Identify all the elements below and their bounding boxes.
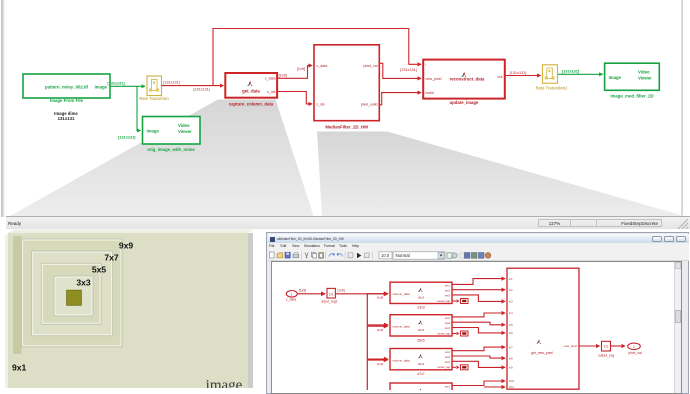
svg-text:[1x9]: [1x9] — [297, 67, 305, 71]
svg-text:[1x9]: [1x9] — [279, 74, 287, 78]
svg-text:5x5: 5x5 — [92, 265, 107, 275]
svg-text:in9: in9 — [509, 366, 513, 370]
svg-text:in11: in11 — [509, 385, 514, 389]
svg-text:input_reg1: input_reg1 — [322, 300, 338, 304]
svg-text:capture_column_data: capture_column_data — [229, 101, 274, 106]
svg-text:[131x131]: [131x131] — [400, 68, 417, 72]
svg-text:in8: in8 — [509, 356, 513, 360]
svg-text:1: 1 — [291, 293, 293, 297]
svg-text:pixel_val: pixel_val — [628, 351, 641, 355]
svg-text:[131x131]: [131x131] — [163, 81, 180, 85]
svg-text:Image: Image — [609, 75, 622, 80]
svg-text:get_new_pixel: get_new_pixel — [531, 351, 553, 355]
svg-text:in6: in6 — [509, 331, 513, 335]
svg-text:Rate Transition1: Rate Transition1 — [536, 86, 569, 91]
svg-text:[131x131]: [131x131] — [562, 70, 580, 74]
svg-text:in1: in1 — [509, 277, 513, 281]
svg-text:orig_image_with_noise: orig_image_with_noise — [147, 147, 195, 152]
svg-text:c_data: c_data — [265, 77, 276, 81]
svg-text:7x7: 7x7 — [104, 253, 119, 263]
svg-text:in2: in2 — [509, 288, 513, 292]
svg-text:(131x131): (131x131) — [193, 88, 211, 92]
svg-text:update_image: update_image — [450, 100, 480, 105]
svg-text:in7: in7 — [509, 345, 513, 349]
svg-text:9x9: 9x9 — [119, 241, 134, 251]
svg-text:[131x131]: [131x131] — [118, 136, 136, 140]
svg-text:c_idx: c_idx — [267, 90, 276, 94]
svg-text:c_idx: c_idx — [317, 103, 326, 107]
svg-text:in10: in10 — [509, 379, 515, 383]
svg-text:reconstruct_data: reconstruct_data — [450, 77, 485, 82]
svg-text:in5: in5 — [509, 323, 513, 327]
svg-text:[131x131]: [131x131] — [510, 71, 527, 75]
svg-text:9x1: 9x1 — [12, 363, 27, 373]
svg-text:d5x5: d5x5 — [417, 338, 424, 342]
svg-text:Rate Transition: Rate Transition — [139, 96, 169, 101]
svg-text:in3: in3 — [509, 300, 513, 304]
svg-text:Video: Video — [178, 123, 190, 128]
svg-text:c_data: c_data — [286, 298, 296, 302]
svg-text:[1x9]: [1x9] — [299, 289, 306, 293]
svg-text:out: out — [498, 75, 503, 79]
svg-text:d7x7: d7x7 — [417, 372, 424, 376]
svg-text:Image: Image — [95, 84, 108, 89]
svg-text:d3x3: d3x3 — [417, 306, 424, 310]
svg-text:Video: Video — [638, 70, 650, 75]
svg-text:get_data: get_data — [242, 89, 260, 94]
svg-text:1: 1 — [633, 345, 635, 349]
svg-text:[1x9]: [1x9] — [337, 289, 344, 293]
svg-text:c_data: c_data — [317, 64, 328, 68]
svg-text:MedianFilter_2D_HW: MedianFilter_2D_HW — [325, 124, 369, 129]
svg-text:ivalid: ivalid — [426, 91, 434, 95]
svg-text:new_pixel: new_pixel — [564, 344, 578, 348]
svg-text:Image: Image — [147, 128, 160, 133]
svg-text:Viewer: Viewer — [638, 76, 652, 81]
svg-text:3x3: 3x3 — [76, 277, 91, 287]
svg-text:[131x131]: [131x131] — [107, 81, 125, 85]
svg-text:pixel_valid: pixel_valid — [361, 103, 378, 107]
svg-text:1/z: 1/z — [604, 344, 609, 348]
svg-text:Viewer: Viewer — [178, 129, 192, 134]
svg-text:1/z: 1/z — [329, 292, 334, 296]
svg-text:Normal: Normal — [396, 253, 410, 258]
svg-text:image_med_filter_2D: image_med_filter_2D — [610, 93, 653, 98]
svg-text:pattern_noisy_002.tif: pattern_noisy_002.tif — [45, 84, 89, 89]
svg-text:10.0: 10.0 — [381, 253, 390, 258]
svg-text:image: image — [206, 378, 243, 389]
svg-text:new_pixel: new_pixel — [426, 77, 442, 81]
svg-text:pixel_val: pixel_val — [364, 64, 378, 68]
svg-text:output_reg: output_reg — [598, 353, 614, 357]
svg-text:131x131: 131x131 — [58, 116, 75, 121]
svg-text:Image From File: Image From File — [50, 98, 84, 103]
svg-text:in4: in4 — [509, 311, 513, 315]
